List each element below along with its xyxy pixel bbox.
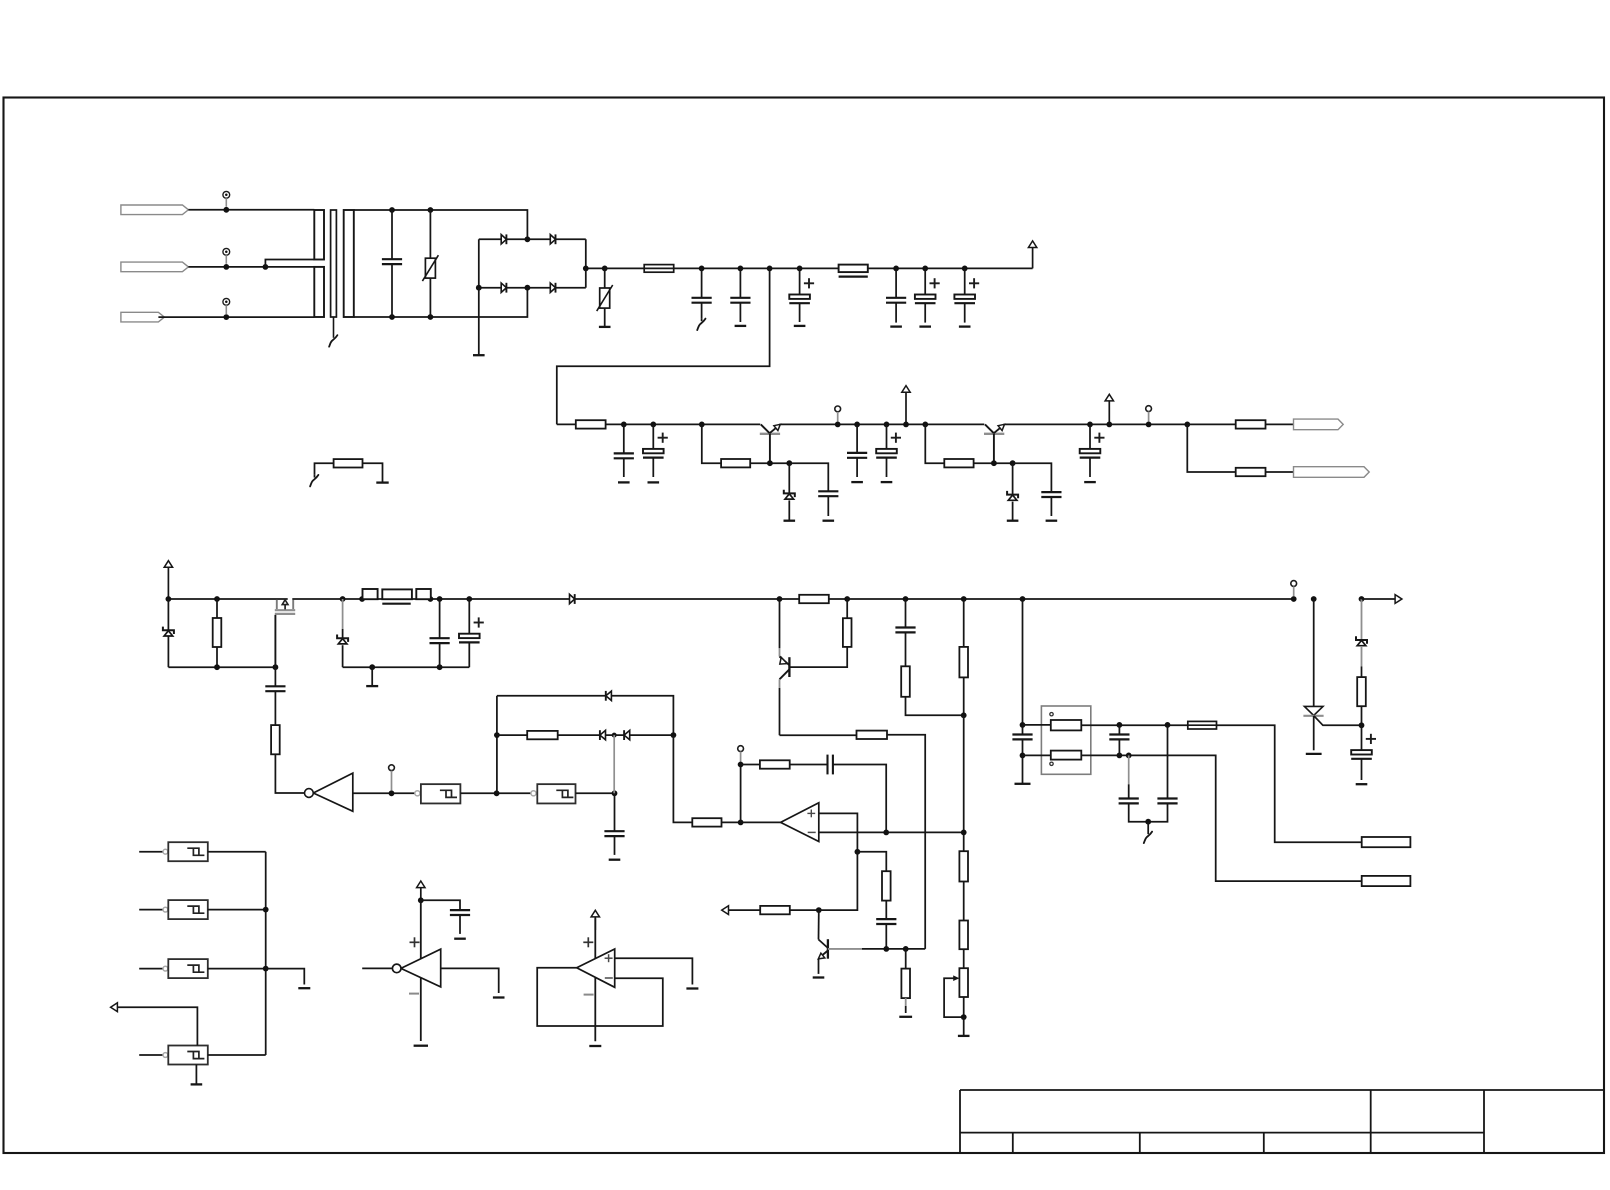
junction: [525, 236, 531, 242]
junction: [883, 830, 889, 836]
varistor RV1: [429, 210, 431, 258]
junction: [1145, 819, 1151, 825]
wire to isolator: [1022, 599, 1024, 725]
resistor R13: [857, 731, 888, 739]
wire rail to regulator row: [557, 268, 770, 424]
ground: [1012, 502, 1014, 521]
junction: [786, 460, 792, 466]
junction: [428, 207, 434, 213]
junction: [602, 266, 608, 272]
wire U1 non-inverting input: [819, 813, 858, 851]
wire to sense node: [887, 735, 925, 949]
junction: [583, 266, 589, 272]
test point TP2: [223, 248, 230, 255]
capacitor C15 (gate): [274, 667, 276, 686]
junction: [369, 664, 375, 670]
wire output bus: [265, 852, 267, 1055]
junction: [991, 460, 997, 466]
zener D5: [788, 463, 790, 493]
wire gate bottom: [168, 666, 275, 668]
diode D12: [600, 730, 606, 739]
schmitt trigger U9: [163, 907, 168, 912]
resistor R1: [557, 423, 576, 425]
junction: [466, 596, 472, 602]
junction: [437, 664, 443, 670]
wire to R2: [702, 424, 721, 463]
ground: [735, 325, 747, 327]
junction: [223, 207, 229, 213]
schmitt trigger U7: [531, 791, 536, 796]
junction: [1020, 722, 1026, 728]
wire F2 to terminal: [1217, 725, 1362, 842]
connector J2 (AC line B): [121, 262, 188, 272]
ground: [1022, 755, 1024, 783]
wire U5 bottom output: [1081, 755, 1361, 881]
junction: [738, 762, 744, 768]
wire U1 output: [741, 821, 781, 823]
junction: [437, 596, 443, 602]
ground: [890, 325, 902, 327]
ground: [454, 938, 466, 940]
ground: [1084, 481, 1096, 483]
resistor R21: [741, 764, 760, 766]
junction: [359, 596, 365, 602]
junction: [1020, 753, 1026, 759]
capacitor C21: [1128, 755, 1130, 784]
wire collector row: [780, 734, 857, 736]
schmitt trigger U6: [415, 791, 420, 796]
resistor R15: [963, 599, 965, 647]
junction: [1010, 460, 1016, 466]
capacitor C4 (electrolytic): [799, 268, 801, 294]
junction: [903, 422, 909, 428]
junction: [1165, 722, 1171, 728]
wire bridge left side: [478, 239, 480, 287]
resistor R8 (gate): [271, 725, 280, 754]
inductor L1 (snubber): [382, 589, 412, 599]
resistor R3: [944, 459, 973, 467]
diode D9: [570, 594, 575, 603]
schmitt trigger U11: [163, 1053, 168, 1058]
connector J4 (output A): [1294, 419, 1344, 430]
capacitor C19: [1012, 733, 1032, 735]
wire to opamp + node: [819, 852, 858, 910]
resistor R5: [1236, 468, 1266, 476]
ground: [298, 987, 310, 989]
junction: [612, 790, 618, 796]
schmitt trigger U10: [163, 966, 168, 971]
junction: [883, 946, 889, 952]
wire bridge bottom row: [479, 287, 586, 289]
junction: [903, 946, 909, 952]
ground: [919, 325, 931, 327]
resistor R6 (chassis bond): [315, 463, 334, 474]
resistor R9 (snubber): [363, 589, 378, 599]
wire main rail left: [168, 598, 287, 600]
wire to C27: [421, 900, 460, 910]
resistor R18: [1357, 677, 1366, 706]
ground: [686, 987, 698, 989]
capacitor C10: [818, 490, 838, 492]
capacitor C6 (electrolytic): [924, 268, 926, 294]
capacitor C25: [790, 764, 828, 766]
wire regulator rail: [606, 423, 761, 425]
junction: [1184, 422, 1190, 428]
wire secondary bottom: [354, 288, 528, 317]
capacitor C27: [450, 909, 470, 911]
wire U11 input: [139, 1054, 163, 1056]
junction: [767, 460, 773, 466]
junction: [223, 314, 229, 320]
junction: [476, 285, 482, 291]
wire base node to C13: [1013, 463, 1052, 492]
diode D1: [501, 235, 506, 244]
transistor Q1 (NPN pass): [760, 433, 780, 435]
junction: [922, 422, 928, 428]
thyristor Q5: [1313, 599, 1315, 706]
wire feedback top row: [497, 695, 606, 697]
junction: [1311, 596, 1317, 602]
junction: [767, 266, 773, 272]
resistor R16 (U5 top): [1051, 720, 1082, 730]
wire U3 feedback loop: [537, 968, 663, 1026]
junction: [418, 897, 424, 903]
junction: [884, 422, 890, 428]
power flag +V2: [1108, 401, 1110, 425]
wire U7 output: [576, 792, 615, 794]
junction: [428, 596, 434, 602]
capacitor C18: [905, 599, 907, 628]
wire feedback riser: [496, 696, 498, 794]
wire U10 output: [208, 968, 266, 970]
wire J3 to transformer: [158, 316, 314, 318]
wire U2 input: [362, 967, 392, 969]
ground (U3 negative): [589, 1045, 601, 1047]
capacitor C24: [614, 793, 616, 831]
junction: [389, 790, 395, 796]
ground (bridge negative): [478, 288, 480, 356]
wire output to TP node: [740, 765, 742, 823]
fuse F1: [644, 265, 674, 273]
ground: [1306, 753, 1322, 755]
wire sense branch: [857, 852, 886, 871]
junction: [797, 266, 803, 272]
junction: [738, 266, 744, 272]
wire D12-D13 node down: [613, 735, 615, 756]
capacitor C26: [885, 901, 887, 920]
wire Q6 base row: [828, 948, 862, 950]
junction: [263, 907, 269, 913]
wire J1 to transformer: [188, 209, 314, 211]
wire bridge top row: [479, 238, 586, 240]
diode D2: [550, 235, 555, 244]
junction: [1126, 753, 1132, 759]
test point TP5: [1146, 406, 1152, 412]
wire U5 top output: [1081, 724, 1188, 726]
capacitor C11: [856, 424, 858, 453]
wire center tap lower: [265, 266, 314, 268]
power flag +V unreg: [1032, 248, 1034, 269]
junction: [816, 907, 822, 913]
junction: [961, 830, 967, 836]
junction: [428, 314, 434, 320]
ground: [813, 976, 825, 978]
wire U8 output: [208, 851, 266, 853]
inductor FB1 (ferrite bead): [839, 265, 868, 273]
junction: [273, 664, 279, 670]
junction: [1146, 422, 1152, 428]
junction: [699, 422, 705, 428]
resistor R26: [959, 921, 968, 950]
junction: [922, 266, 928, 272]
ground: [899, 1016, 912, 1018]
capacitor C8: [623, 424, 625, 453]
wire U1 inverting input: [819, 831, 964, 833]
wire to lower output: [1187, 424, 1235, 472]
power flag (U3): [594, 917, 596, 930]
junction: [893, 266, 899, 272]
junction: [844, 596, 850, 602]
resistor R4: [1187, 423, 1235, 425]
wire main rail mid: [292, 598, 569, 600]
junction: [699, 266, 705, 272]
junction: [1117, 753, 1123, 759]
wire center tap upper: [265, 260, 314, 267]
ground: [604, 308, 606, 327]
terminal E1: [1362, 837, 1411, 847]
ground: [618, 481, 630, 483]
wire bridge right side: [586, 239, 605, 268]
junction: [340, 596, 346, 602]
wire top row to node: [611, 696, 673, 735]
capacitor C12 (electrolytic): [886, 424, 888, 449]
capacitor C20: [1118, 725, 1120, 735]
connector J1 (AC line A): [121, 205, 188, 215]
resistor R12: [846, 599, 848, 618]
ground: [823, 520, 835, 522]
junction: [777, 596, 783, 602]
zener D8: [342, 599, 344, 629]
comparator U2: [420, 900, 422, 1041]
junction: [835, 422, 841, 428]
ground: [963, 1017, 965, 1036]
junction: [525, 285, 531, 291]
junction: [1020, 596, 1026, 602]
junction: [214, 596, 220, 602]
connector J3 (AC line C): [121, 312, 164, 322]
capacitor C17 (electrolytic): [468, 599, 470, 634]
wire output rail: [1004, 423, 1188, 425]
capacitor C5: [895, 268, 897, 297]
junction: [612, 733, 617, 738]
junction: [854, 422, 860, 428]
potentiometer RV3: [959, 968, 968, 997]
junction: [1106, 422, 1112, 428]
signal arrow (current sense): [722, 906, 729, 915]
wire C25 to inverting node: [833, 765, 886, 833]
junction: [1087, 422, 1093, 428]
resistor R7: [216, 599, 218, 618]
signal arrow (rail out): [1362, 598, 1396, 600]
junction: [1359, 722, 1365, 728]
ground: [376, 481, 388, 483]
test point TP3: [223, 298, 230, 305]
capacitor C23 (electrolytic): [1361, 725, 1363, 750]
wire U4 input: [353, 792, 415, 794]
capacitor C22: [1167, 725, 1169, 799]
diode D3: [501, 283, 506, 292]
junction: [738, 820, 744, 826]
ground: [371, 667, 373, 686]
wire secondary top: [354, 210, 528, 239]
junction: [389, 207, 395, 213]
wire R8 to inverter: [275, 754, 304, 793]
power flag (U2): [420, 888, 422, 901]
junction: [903, 596, 909, 602]
zener D7: [167, 599, 169, 630]
capacitor C16: [439, 599, 441, 638]
junction: [1117, 722, 1123, 728]
junction: [961, 1014, 967, 1020]
test point TP8: [738, 746, 744, 752]
wire DC rail: [605, 267, 645, 269]
wire U6 to U7: [460, 792, 531, 794]
resistor R24: [905, 949, 907, 969]
ground: [851, 481, 863, 483]
connector J5 (output B): [1294, 467, 1370, 478]
resistor R11: [780, 598, 800, 600]
signal arrow (sync out): [111, 1003, 118, 1012]
ground: [881, 481, 893, 483]
junction: [223, 264, 229, 270]
wire R23 to Q6: [790, 909, 819, 911]
ground: [1356, 783, 1368, 785]
capacitor C3: [739, 268, 741, 297]
resistor R25: [959, 851, 968, 881]
junction: [961, 712, 967, 718]
wire U9 output: [208, 909, 266, 911]
comparator U3: [594, 918, 596, 1041]
fuse F2: [1188, 721, 1217, 729]
wire bus stub to ground: [266, 969, 305, 985]
ground: [648, 481, 660, 483]
isolator U5 box: [1041, 706, 1090, 774]
resistor R22: [882, 871, 891, 900]
resistor R19: [497, 734, 527, 736]
varistor RV2: [604, 268, 606, 288]
transistor Q6 (NPN): [818, 910, 820, 939]
transistor Q4 (PNP): [779, 599, 781, 648]
chassis ground: [314, 475, 316, 478]
resistor R23: [760, 906, 790, 914]
junction: [263, 966, 269, 972]
junction: [389, 314, 395, 320]
wire R14 to divider: [906, 697, 964, 716]
wire U8 input: [139, 851, 163, 853]
capacitor C14 (electrolytic): [1089, 424, 1091, 449]
capacitor C7 (electrolytic): [964, 268, 966, 294]
junction: [1291, 596, 1297, 602]
power flag +V unreg (row3): [167, 567, 169, 599]
wire U11 output: [208, 1054, 266, 1056]
wire U10 input: [139, 968, 163, 970]
wire U3 non-inverting input: [615, 958, 693, 984]
wire mid row to node: [630, 734, 674, 736]
terminal E2: [1362, 876, 1411, 886]
diode D4: [550, 283, 555, 292]
test point TP1: [223, 191, 230, 198]
resistor R2: [721, 459, 750, 467]
zener D6: [1012, 463, 1014, 494]
wire U5 bottom input: [1023, 754, 1051, 756]
capacitor C1: [391, 210, 393, 259]
diode D13: [624, 730, 630, 739]
junction: [962, 266, 968, 272]
MOSFET Q3: [276, 600, 278, 609]
inverter U4: [313, 773, 353, 811]
test point TP4: [835, 406, 841, 412]
schmitt trigger U8: [163, 849, 168, 854]
wire rail right of R11: [847, 598, 1293, 600]
wire U2 output: [441, 968, 499, 993]
wire emitter rail: [779, 423, 984, 425]
wire base node to C10: [789, 463, 828, 491]
wire node to R20: [673, 735, 692, 822]
capacitor C9 (electrolytic): [652, 424, 654, 449]
resistor R10 (snubber): [416, 589, 431, 599]
junction: [494, 732, 500, 738]
wire U9 input: [139, 909, 163, 911]
test point TP7: [389, 765, 395, 771]
ground: [493, 996, 505, 998]
resistor R20: [692, 818, 721, 826]
ground: [788, 500, 790, 520]
ground: [1046, 520, 1058, 522]
wire U5 top input: [1023, 724, 1051, 726]
junction: [214, 664, 220, 670]
junction: [263, 264, 269, 270]
ground (U2 negative): [414, 1045, 428, 1047]
wire snubber bottom: [343, 666, 470, 668]
wire J2 to transformer center tap: [188, 266, 265, 268]
chassis ground: [701, 318, 703, 321]
transistor Q2 (NPN pass): [984, 433, 1004, 435]
transformer T1: [314, 210, 324, 260]
chassis ground: [1147, 822, 1149, 835]
power flag +V1: [905, 392, 907, 424]
op-amp U1: [781, 803, 819, 842]
ground: [195, 1065, 197, 1085]
junction: [855, 849, 861, 855]
junction: [650, 422, 656, 428]
resistor R14: [901, 666, 910, 697]
diode D11: [606, 691, 612, 700]
capacitor C13: [1041, 491, 1061, 493]
ground: [609, 859, 621, 861]
wire to R3: [925, 424, 944, 463]
test point TP6: [1291, 581, 1297, 587]
junction: [1359, 596, 1365, 602]
junction: [961, 596, 967, 602]
junction: [671, 732, 677, 738]
junction: [494, 790, 500, 796]
zener D10: [1361, 599, 1363, 640]
ground: [794, 325, 806, 327]
wire divider vertical: [963, 715, 965, 851]
ground: [959, 325, 971, 327]
junction: [621, 422, 627, 428]
capacitor C2: [701, 268, 703, 297]
